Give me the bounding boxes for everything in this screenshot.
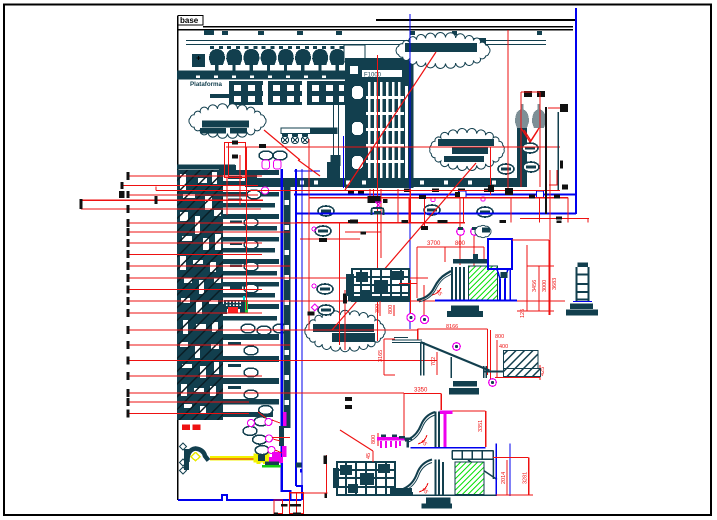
truss top [452,451,493,460]
cloud A [396,33,490,69]
machine lattice left [346,269,410,302]
svg-text:3281: 3281 [523,472,529,484]
dim 8166 [384,329,540,386]
magenta blob [269,457,283,463]
magenta circles with stems [457,225,491,237]
small black ticks on lines [232,141,561,410]
black square node right [560,104,568,112]
yellow blob IKB [254,450,270,464]
V marks under gray trees [521,128,539,142]
tower verticals [436,412,440,448]
slide S-curve [405,412,435,441]
walkway elbow to horizontal [245,178,527,187]
pedestal [451,306,479,312]
small dark label marks in rung gaps [228,177,242,390]
blue node squares [459,191,466,198]
legs grid below band [210,81,355,105]
red vertical x246 [246,147,248,310]
svg-text:3000: 3000 [542,280,548,292]
posts [421,342,487,378]
svg-text:3351: 3351 [478,420,484,432]
slide tower verticals [453,259,488,264]
svg-text:45: 45 [366,453,372,459]
band white gaps [196,76,326,79]
platform band [177,71,347,80]
rung bars of tower [223,170,279,417]
bottom line [483,371,504,373]
45 arc [418,435,427,444]
svg-text:702: 702 [431,357,437,366]
white cutouts in legs grid [234,85,344,102]
dense block F1000 [345,58,412,188]
top strip small ticks [204,30,542,35]
svg-text:3350: 3350 [414,388,428,394]
white gaps in walkway band [285,181,496,406]
white bar with outline near block [281,128,337,134]
magenta vertical [444,413,447,448]
blue funnel [497,269,508,300]
svg-text:400: 400 [499,344,508,350]
right dims [512,240,554,315]
white streaks inside block [180,172,221,414]
blue vertical second [295,169,297,486]
planter square with cross [192,54,205,67]
blue short horizontal left [294,170,320,172]
cloud A leader diagonal [345,52,436,190]
tower verticals [436,460,444,495]
blue bottom frame line [178,495,302,500]
cloud B [430,128,505,170]
blue bottom U path [282,491,291,500]
RED NETWORK central [225,30,569,350]
RED LEADER LINES (left) [81,176,565,414]
blue step down right of tower [296,486,302,500]
pedestal [453,381,477,387]
red squares under tower [182,425,190,431]
magenta bowtie [376,202,381,208]
BLUE LINE WORK [178,8,576,500]
ovals above [259,406,273,415]
blue vertical right [495,444,497,496]
pedestal [426,497,451,503]
svg-text:800: 800 [495,334,504,340]
green hatched block [469,266,498,300]
black hatch lines overlay [177,170,223,420]
frame top line 1 [376,19,577,21]
block right rail [412,60,414,188]
svg-text:3700: 3700 [427,241,441,247]
svg-text:3165: 3165 [378,350,384,362]
red rect above tower [225,143,246,178]
black tick mid leader [155,196,158,204]
dim 3700/800 top [345,189,484,318]
red verticals right [424,195,426,230]
svg-text:2014: 2014 [501,472,507,484]
walkway right elbow up [517,112,527,187]
hatched block right [504,351,539,375]
black blob cluster below band [368,196,381,203]
walkway left step block [219,165,236,175]
small oval labels on rungs [241,218,287,399]
tree row (8 trees) [209,46,225,73]
walkway stub up at x333 [327,162,340,184]
svg-text:125: 125 [520,309,526,318]
svg-text:3683: 3683 [552,278,558,290]
yellow diamond [191,453,200,461]
colored detail block (multicolor) [222,296,248,314]
thin vertical pipe from legs grid [333,85,334,157]
short red connectors [258,412,282,453]
45 arc [419,483,428,492]
slide S-curve [417,271,451,300]
blue vertical x410 [409,14,411,329]
blue vertical beside tower (thick) [281,169,283,492]
gray trees at elbow top [515,104,546,128]
dim 3350 bracket [378,394,486,447]
S-curve tube start [187,449,208,463]
slide S-curve [400,460,432,491]
blue baseline [435,300,517,302]
ovals near tower top [259,151,273,160]
base label box [178,16,203,26]
frame left vertical [177,16,179,500]
teal bar and magenta strip [279,426,284,446]
black vertical line x546 [545,107,547,214]
foot [402,492,413,496]
top strip thin rail [186,40,546,41]
cloud D [305,310,385,351]
left ladder edge of block [345,58,349,188]
magenta circles [453,343,461,351]
svg-text:3456: 3456 [532,280,538,292]
small caps above trees [452,38,486,47]
svg-text:Plataforma: Plataforma [190,81,223,88]
svg-text:base: base [180,16,199,25]
blue horizontal y213.5 [296,213,576,215]
cloud B leader [332,163,476,330]
magenta diamond marker [311,304,318,311]
svg-text:800: 800 [371,435,377,444]
red verticals tower area [239,155,241,205]
platform top [392,338,422,343]
magenta outlined pads [261,160,281,194]
red network right of tower [308,139,310,330]
left diamonds [180,443,187,474]
dims [340,430,533,495]
magenta dots above pool ovals [431,197,435,201]
outline box above dense block [344,45,365,62]
walkway vertical band [283,184,290,428]
svg-text:800: 800 [388,305,394,314]
arrow to black square [548,107,560,109]
ladder tower standalone [566,263,598,316]
black ticks on red lines [348,220,354,223]
black bars bottom [281,504,288,507]
leader tick marks [80,172,130,418]
bottom circles with magenta [407,314,415,322]
blue vertical at x343 [343,136,345,188]
long red horizontal y147 [226,146,560,148]
magenta top bar [440,411,453,415]
circled-x symbols [281,134,308,144]
slope beam [421,342,490,371]
blue vertical right frame x576 [575,8,577,214]
magenta cluster left [377,437,405,441]
frame top double line [203,26,573,27]
blue horizontal y194.5 [294,194,576,196]
magenta dots [312,227,316,231]
pool exit symbols row [318,206,334,216]
45 angle arc [432,288,441,295]
teal open box [372,208,384,215]
machine lattice [333,462,412,496]
hanging line from square [558,112,560,190]
black caps above elbow [524,91,532,97]
green hatched block [455,462,484,495]
TD marks in funnel [501,272,508,278]
pedestal + green line [265,462,279,466]
svg-text:300: 300 [375,304,381,313]
baseline [411,494,497,496]
cloud C [189,104,266,139]
blue baseline [411,447,486,449]
black dashes under walkway band [348,189,491,195]
central hatched tower block [177,165,235,421]
svg-text:F1000: F1000 [364,73,382,79]
red connector lines [272,438,328,514]
T post [407,439,410,448]
svg-text:8166: 8166 [446,324,458,330]
blue tank rect [488,239,512,269]
svg-text:800: 800 [455,241,466,247]
white slots [350,66,408,182]
yellow band [210,456,256,461]
